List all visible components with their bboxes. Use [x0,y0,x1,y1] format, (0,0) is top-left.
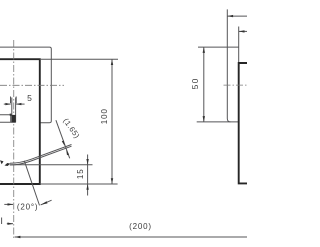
svg-text:50: 50 [190,77,200,89]
svg-text:5: 5 [27,93,32,103]
svg-text:15: 15 [76,168,85,179]
svg-text:100: 100 [100,108,109,124]
svg-text:(1.65): (1.65) [61,117,81,141]
svg-text:(200): (200) [129,222,152,231]
svg-text:(20°): (20°) [17,203,38,212]
